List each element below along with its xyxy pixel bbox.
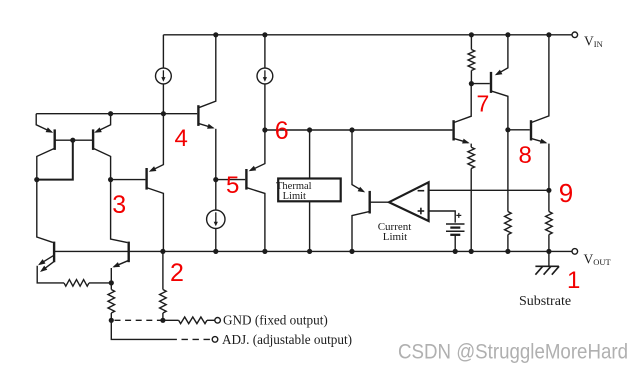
transistor Q2b emitter <box>111 260 128 283</box>
junction dot node F <box>109 280 114 285</box>
junction dot node B right <box>108 177 113 182</box>
wire node G down <box>111 320 170 339</box>
junction dot node D <box>469 81 474 86</box>
svg-text:2: 2 <box>170 259 184 287</box>
transistor Q8 base bar <box>530 120 532 140</box>
node dot top rail x548 <box>546 32 551 37</box>
wire Q2a emitters down <box>37 266 64 283</box>
resistor R2 vertical <box>108 283 115 320</box>
transistor Q1b emitter <box>94 114 110 133</box>
svg-text:ADJ. (adjustable output): ADJ. (adjustable output) <box>222 332 352 347</box>
transistor Q1b collector <box>93 148 111 179</box>
label 4 red <box>175 125 188 152</box>
transistor Q1a base bar <box>54 129 56 150</box>
wire thermal box to ground rail <box>309 201 311 251</box>
junction dot node A x110 <box>108 111 113 116</box>
transistor Q4 emitter <box>198 123 215 179</box>
wire R4 to GND terminal <box>207 319 215 321</box>
terminal ADJ open circle <box>212 337 218 343</box>
node dot top rail x471 <box>469 32 474 37</box>
transistor Q9 base bar <box>369 191 371 214</box>
wire node9 to R8 <box>548 190 550 211</box>
transistor Q3 collector <box>147 188 164 252</box>
svg-text:1: 1 <box>567 267 580 294</box>
transistor Q2a base bar <box>53 242 55 263</box>
junction dot node 9 <box>546 188 551 193</box>
junction dot node E <box>505 127 510 132</box>
wire node H to R4 <box>163 319 179 321</box>
transistor Q6 collector <box>454 84 472 123</box>
terminal V_OUT open circle <box>572 249 578 255</box>
transistor Q5 emitter <box>249 130 265 171</box>
wire rail to I1 <box>162 35 164 68</box>
junction dot node A x163 <box>161 111 166 116</box>
label V_IN <box>584 34 603 50</box>
node dot top rail x264 <box>262 32 267 37</box>
transistor Q8 emitter <box>531 138 549 190</box>
junction dot rail x215 <box>213 249 218 254</box>
wire node E to Q8 base <box>508 129 530 131</box>
junction dot node6 x309 <box>307 127 312 132</box>
transistor Q1a emitter <box>36 114 53 133</box>
wire Q9 base to amp <box>370 201 389 203</box>
transistor Q6 emitter <box>454 138 472 147</box>
wire I3 to ground rail <box>215 229 217 252</box>
wire R5 to ground rail <box>470 169 472 252</box>
current source I3 <box>207 210 225 228</box>
svg-text:5: 5 <box>226 172 239 199</box>
junction dot node 6 <box>262 127 267 132</box>
transistor Q2a collector <box>37 180 53 243</box>
svg-text:Substrate: Substrate <box>519 294 571 309</box>
wire top V_IN rail <box>163 34 572 36</box>
watermark CSDN <box>398 341 628 364</box>
wire I2 to node 6 <box>264 84 266 130</box>
terminal V_IN open circle <box>572 32 578 38</box>
junction dot rail x352 <box>349 249 354 254</box>
svg-text:Limit: Limit <box>283 191 306 202</box>
transistor Q8 collector <box>531 35 549 123</box>
transistor Q4 collector <box>198 35 215 108</box>
junction dot mirror bases <box>70 138 75 143</box>
wire node6 to thermal box <box>309 130 311 179</box>
label 8 red <box>519 142 532 169</box>
wire node E to R7 <box>507 130 509 212</box>
svg-text:9: 9 <box>559 178 573 208</box>
transistor Q3 emitter <box>149 114 164 172</box>
transistor Q7 collector <box>491 91 508 130</box>
wire rail to R6 <box>470 35 472 50</box>
svg-text:GND (fixed output): GND (fixed output) <box>223 313 328 328</box>
wire mirror base tie <box>55 139 93 141</box>
svg-text:6: 6 <box>275 117 289 145</box>
wire node A horizontal <box>36 113 197 115</box>
transistor Q2a emitter 2 <box>40 261 54 272</box>
transistor Q9 emitter <box>352 130 365 192</box>
wire R1 to node F <box>89 282 111 284</box>
svg-text:VIN: VIN <box>584 34 603 50</box>
wire node C horizontal <box>216 179 245 181</box>
wire base-to-collector tie <box>37 140 73 179</box>
transistor Q1b base bar <box>92 129 94 150</box>
resistor R5 <box>468 147 475 168</box>
label 7 red <box>477 91 490 117</box>
wire rail to I2 <box>264 35 266 68</box>
junction dot rail x507 <box>505 249 510 254</box>
node dot top rail x507 <box>505 32 510 37</box>
label 1 red <box>567 267 580 294</box>
op-amp current limit triangle <box>389 182 429 221</box>
wire amp plus input to battery <box>429 211 456 223</box>
wire R6 to node D <box>470 71 472 84</box>
label 2 red <box>170 259 184 287</box>
svg-text:CSDN @StruggleMoreHard: CSDN @StruggleMoreHard <box>398 341 628 364</box>
transistor Q1a collector <box>37 148 55 179</box>
junction dot node H <box>160 318 165 323</box>
resistor R7 <box>505 212 512 235</box>
wire node 6 horizontal <box>265 129 453 131</box>
svg-text:8: 8 <box>519 142 532 169</box>
svg-text:VOUT: VOUT <box>584 251 612 267</box>
label V_OUT <box>584 251 612 267</box>
junction dot node B left <box>34 177 39 182</box>
transistor Q7 emitter <box>495 35 508 76</box>
resistor R4 horizontal <box>179 317 207 324</box>
label 6 red <box>275 117 289 145</box>
transistor Q3 base bar <box>145 168 147 190</box>
transistor Q9 collector <box>352 211 370 251</box>
node dot top rail x215 <box>213 32 218 37</box>
wire R7 to ground rail <box>507 235 509 252</box>
junction dot rail x548 <box>546 249 551 254</box>
junction dot node6 x352 <box>349 127 354 132</box>
transistor Q5 base bar <box>245 169 247 190</box>
current source I2 <box>257 68 273 84</box>
transistor Q2a emitter 1 <box>38 255 54 265</box>
junction dot rail x471 <box>469 249 474 254</box>
wire rail to R3 <box>162 251 164 289</box>
junction dot rail x264 <box>262 249 267 254</box>
transistor Q4 base bar <box>197 105 199 126</box>
junction dot rail x162 <box>160 249 165 254</box>
wire Q7 base to node D <box>471 83 489 85</box>
current source I1 <box>156 68 172 84</box>
resistor R3 vertical <box>160 290 167 321</box>
svg-text:3: 3 <box>112 191 126 219</box>
wire node C to I3 <box>215 180 217 211</box>
wire amp minus input to node 9 <box>429 189 549 191</box>
wire dashed node G to node H <box>115 319 162 321</box>
label 3 red <box>112 191 126 219</box>
junction dot node C <box>213 177 218 182</box>
svg-text:4: 4 <box>175 125 188 152</box>
wire I1 to node A <box>162 84 164 114</box>
transistor Q2b collector <box>111 180 128 243</box>
label Current Limit <box>378 221 412 243</box>
wire dashed to ADJ terminal <box>171 338 212 340</box>
resistor R8 <box>546 212 553 235</box>
label 9 red <box>559 178 573 208</box>
junction dot rail x455 <box>453 249 458 254</box>
svg-text:Limit: Limit <box>383 231 407 243</box>
resistor R1 horizontal <box>64 280 89 287</box>
transistor Q7 base bar <box>490 72 492 93</box>
wire node B to Q3 base <box>111 179 146 181</box>
label ADJ adjustable output <box>222 332 352 347</box>
block Thermal Limit box <box>276 179 341 203</box>
transistor Q2b base bar <box>127 242 129 263</box>
label 5 red <box>226 172 239 199</box>
battery reference <box>446 213 465 235</box>
junction dot rail x309 <box>307 249 312 254</box>
wire bottom V_OUT rail <box>54 250 572 252</box>
svg-text:7: 7 <box>477 91 490 117</box>
junction dot node G <box>109 318 114 323</box>
transistor Q6 base bar <box>452 120 454 140</box>
label GND fixed output <box>223 313 328 328</box>
wire R8 to ground rail <box>548 235 550 252</box>
wire battery to ground rail <box>454 235 456 252</box>
ground substrate symbol <box>535 251 559 274</box>
transistor Q5 collector <box>246 188 265 252</box>
label Substrate <box>519 294 571 309</box>
resistor R6 <box>468 50 475 71</box>
terminal GND open circle <box>215 318 221 324</box>
